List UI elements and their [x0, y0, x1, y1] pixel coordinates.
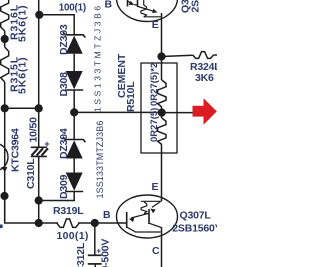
resistor 0R27(5) upper: [158, 80, 166, 107]
svg-text:KTC3964: KTC3964: [10, 128, 22, 172]
wire: [78, 222, 127, 224]
node junction diode column: [70, 108, 78, 116]
svg-text:D308: D308: [58, 72, 70, 97]
svg-text:Q307L: Q307L: [180, 210, 212, 222]
wire emitter top: [161, 13, 163, 57]
wire: [73, 54, 75, 71]
wire: [5, 107, 39, 109]
zener diode DZ303: [63, 32, 85, 37]
base bar T2: [148, 209, 150, 224]
svg-text:D309: D309: [58, 174, 70, 199]
wire: [74, 111, 161, 113]
node junction top: [35, 11, 43, 19]
wire: [161, 57, 163, 80]
svg-text:10/50: 10/50: [28, 117, 40, 143]
emitter lead T1: [131, 213, 148, 218]
svg-text:5K6(1): 5K6(1): [17, 57, 29, 95]
svg-text:C310L: C310L: [25, 158, 37, 189]
svg-text:2SD600: 2SD600: [190, 0, 202, 13]
svg-text:0R27(5): 0R27(5): [149, 108, 160, 142]
wire: [162, 112, 193, 114]
svg-text:B: B: [103, 209, 111, 221]
resistor 0R27(5) lower: [158, 118, 166, 145]
wire: [161, 145, 163, 202]
zener diode DZ304: [63, 137, 85, 142]
emitter lead T2 top: [138, 7, 156, 12]
node junction: [0, 192, 8, 200]
diode D308: [66, 71, 83, 89]
svg-text:1SS133TMTZJ3B6: 1SS133TMTZJ3B6: [93, 3, 103, 112]
base bar T1 top: [127, 0, 129, 7]
capacitor C312L: [88, 254, 102, 256]
node junction E: [157, 52, 165, 60]
svg-text:3K6: 3K6: [195, 72, 214, 84]
wire: [162, 55, 193, 56]
node junction mid box: [158, 109, 166, 117]
transistor Q307L: [117, 195, 178, 238]
wire collector: [161, 227, 163, 267]
svg-text:0R27(5)*2: 0R27(5)*2: [149, 63, 160, 106]
capacitor C310L: [31, 146, 47, 148]
svg-text:R319L: R319L: [53, 205, 84, 217]
svg-text:0-500V: 0-500V: [100, 239, 112, 267]
svg-text:R510L: R510L: [125, 81, 137, 112]
svg-text:C: C: [152, 245, 160, 257]
transistor Q KTC3964 (clipped at left edge): [0, 143, 8, 171]
resistor R324L: [193, 52, 214, 59]
emitter lead T1 top: [128, 1, 133, 4]
transistor Q306L (clipped at top): [117, 0, 178, 22]
svg-text:B: B: [105, 0, 113, 11]
resistor block CEMENT R510L: [141, 63, 177, 153]
emitter lead T2: [152, 202, 160, 208]
wire: [39, 15, 74, 35]
svg-text:100(1): 100(1): [57, 230, 89, 242]
node junction: [35, 104, 43, 112]
wire: [4, 31, 6, 47]
wire internal top: [134, 4, 138, 6]
svg-text:E: E: [152, 19, 159, 31]
wire: [214, 54, 218, 56]
wire: [161, 107, 163, 118]
wire: [94, 223, 96, 255]
svg-text:2SB1560Y: 2SB1560Y: [172, 223, 217, 235]
collector lead T1: [127, 227, 161, 232]
resistor R319L: [57, 219, 79, 227]
node junction left: [1, 104, 9, 112]
resistor R316L: [1, 0, 9, 31]
node junction C: [35, 196, 43, 204]
svg-text:DZ303: DZ303: [58, 24, 70, 55]
node junction: [35, 219, 43, 227]
svg-text:DZ304: DZ304: [58, 128, 70, 159]
wire internal E stub top: [144, 16, 162, 18]
collector lead T2: [149, 223, 161, 227]
net stub left edge: [0, 225, 3, 229]
wire: [73, 90, 75, 140]
wire: [38, 0, 40, 147]
svg-text:E: E: [152, 181, 159, 193]
svg-text:C312L: C312L: [75, 242, 87, 267]
svg-text:1SS133TMTZJ3B6: 1SS133TMTZJ3B6: [95, 121, 105, 199]
wire: [73, 159, 75, 173]
wire: [38, 156, 40, 223]
internal resistor Q307L: [141, 202, 147, 214]
node junction B: [91, 219, 99, 227]
base bar T2 top: [137, 0, 139, 7]
resistor lead top: [143, 0, 145, 5]
svg-text:5K6(1): 5K6(1): [17, 5, 29, 43]
resistor R315L: [1, 47, 9, 82]
internal stub: [144, 213, 149, 215]
diode D309: [66, 173, 83, 191]
svg-text:100(1): 100(1): [59, 3, 86, 14]
wire: [5, 196, 58, 223]
internal resistor top: [141, 5, 147, 17]
wire: [4, 108, 6, 223]
off-page connector arrow: [193, 98, 217, 125]
internal E stub: [141, 200, 162, 202]
wire: [39, 192, 74, 201]
base bar T1: [126, 212, 128, 228]
wire: [4, 82, 6, 108]
node junction R316L/R315L: [1, 35, 9, 43]
